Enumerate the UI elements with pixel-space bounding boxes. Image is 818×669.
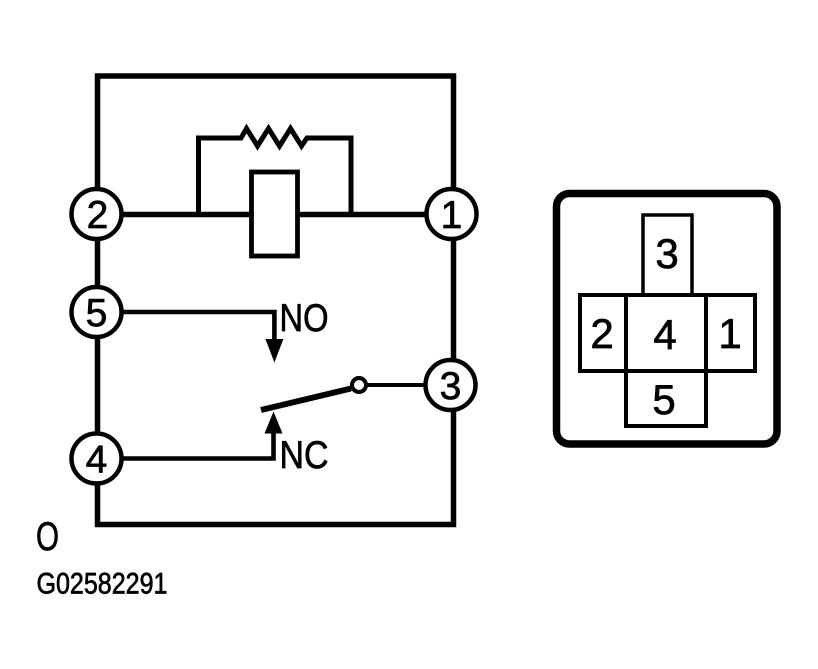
svg-text:5: 5 bbox=[652, 376, 675, 423]
arrow NC (points up to switch arm) bbox=[265, 412, 283, 434]
svg-text:1: 1 bbox=[718, 310, 741, 357]
svg-text:NO: NO bbox=[280, 297, 329, 340]
relay coil bbox=[252, 172, 298, 256]
switch contact pivot (open circle) bbox=[352, 378, 366, 392]
terminal 1 bbox=[427, 189, 477, 239]
svg-text:4: 4 bbox=[653, 311, 676, 358]
svg-text:1: 1 bbox=[441, 194, 463, 237]
terminal 5 bbox=[72, 287, 122, 337]
wire coil feed horizontal (terminal 2 to terminal 1) bbox=[96, 212, 453, 218]
cavity 2 bbox=[580, 295, 626, 371]
wire switch to terminal 3 bbox=[366, 383, 428, 387]
svg-text:G02582291: G02582291 bbox=[37, 568, 168, 601]
terminal 3 bbox=[426, 360, 476, 410]
wire NO branch from terminal 5 bbox=[123, 312, 274, 341]
svg-text:3: 3 bbox=[440, 365, 462, 408]
resistor (parallel with coil) bbox=[199, 129, 352, 217]
connector outline (rounded shell) bbox=[557, 194, 778, 445]
svg-text:2: 2 bbox=[590, 310, 613, 357]
svg-text:2: 2 bbox=[87, 194, 109, 237]
arrow NO (points down to switch) bbox=[265, 339, 283, 363]
svg-text:4: 4 bbox=[86, 439, 108, 482]
wire NC branch from terminal 4 bbox=[123, 432, 274, 459]
svg-text:O: O bbox=[36, 515, 59, 559]
cavity 5 bbox=[626, 371, 706, 426]
cavity 3 bbox=[643, 215, 692, 295]
svg-text:5: 5 bbox=[86, 292, 108, 335]
cavity 4 bbox=[626, 295, 706, 371]
svg-text:NC: NC bbox=[280, 434, 329, 477]
switch arm (movable contact) bbox=[261, 389, 351, 411]
svg-text:3: 3 bbox=[655, 230, 678, 277]
terminal 2 bbox=[72, 189, 122, 239]
cavity 1 bbox=[706, 295, 755, 371]
terminal 4 bbox=[72, 434, 122, 484]
wire outer loop rectangle bbox=[98, 76, 454, 525]
